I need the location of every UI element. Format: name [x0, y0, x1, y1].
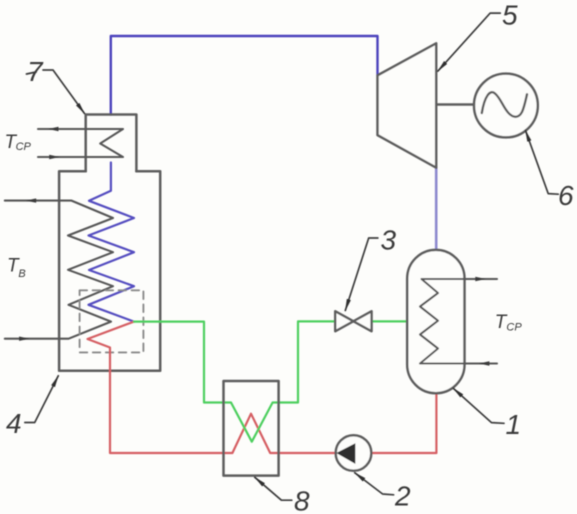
red coil tail in tank 4 and pipe to regenerator 8 — [88, 322, 336, 453]
green pipe: tank4 junction to regenerator 8 to valve — [134, 321, 335, 441]
flow arrow in (bottom right-pointing) — [19, 337, 30, 341]
leader 2 — [355, 473, 394, 495]
pump triangle — [336, 443, 355, 464]
valve 3 — [335, 311, 371, 331]
leader 1 — [453, 388, 504, 423]
leader 6 — [525, 130, 558, 194]
shaft turbine to generator — [436, 103, 474, 105]
generator sine wave — [482, 92, 527, 117]
svg-text:B: B — [18, 268, 25, 280]
leader 3 — [345, 238, 378, 311]
wire: blue pipe turbine outlet down to condenser top — [435, 168, 438, 251]
flow arrow in (bottom left-pointing) — [479, 361, 490, 365]
flow arrow in (bottom, right-pointing) — [49, 155, 60, 159]
leader 4 — [25, 376, 59, 423]
black coil in tank 4 with outlet/inlet lines — [5, 201, 113, 339]
flow arrow out (top right-pointing) — [475, 277, 486, 281]
wire: blue pipe box7 top to turbine inlet — [111, 36, 378, 115]
leader 7 — [43, 70, 85, 114]
coil in box 7 — [38, 129, 123, 157]
svg-text:1: 1 — [506, 409, 522, 440]
blue coil in tank 4 — [89, 163, 135, 322]
svg-text:CP: CP — [506, 322, 522, 334]
svg-text:5: 5 — [502, 0, 518, 31]
svg-text:CP: CP — [16, 141, 32, 153]
svg-text:2: 2 — [394, 481, 411, 512]
pump 2 circle — [336, 435, 372, 471]
generator 6 circle — [474, 74, 538, 138]
green pipe: valve to condenser — [372, 320, 408, 322]
leader 5 — [438, 13, 500, 71]
dashed evaporation zone box — [80, 290, 144, 352]
red pipe pump to condenser bottom — [371, 393, 436, 453]
flow arrow out (top left-pointing) — [26, 198, 37, 202]
turbine 5 — [378, 43, 437, 167]
coil in condenser with coolant lines — [420, 279, 497, 364]
heat exchanger 7 box — [86, 115, 137, 172]
svg-text:8: 8 — [294, 486, 310, 514]
leader 8 — [255, 477, 292, 500]
svg-text:4: 4 — [6, 408, 22, 439]
svg-text:6: 6 — [558, 180, 574, 211]
condenser 1 vessel — [407, 250, 464, 393]
crossbar of 7 — [27, 72, 37, 74]
regenerator 8 box — [224, 381, 279, 476]
svg-text:3: 3 — [381, 224, 397, 255]
flow arrow out (top, left-pointing) — [48, 127, 59, 131]
boiler tank 4 outline — [59, 171, 160, 370]
